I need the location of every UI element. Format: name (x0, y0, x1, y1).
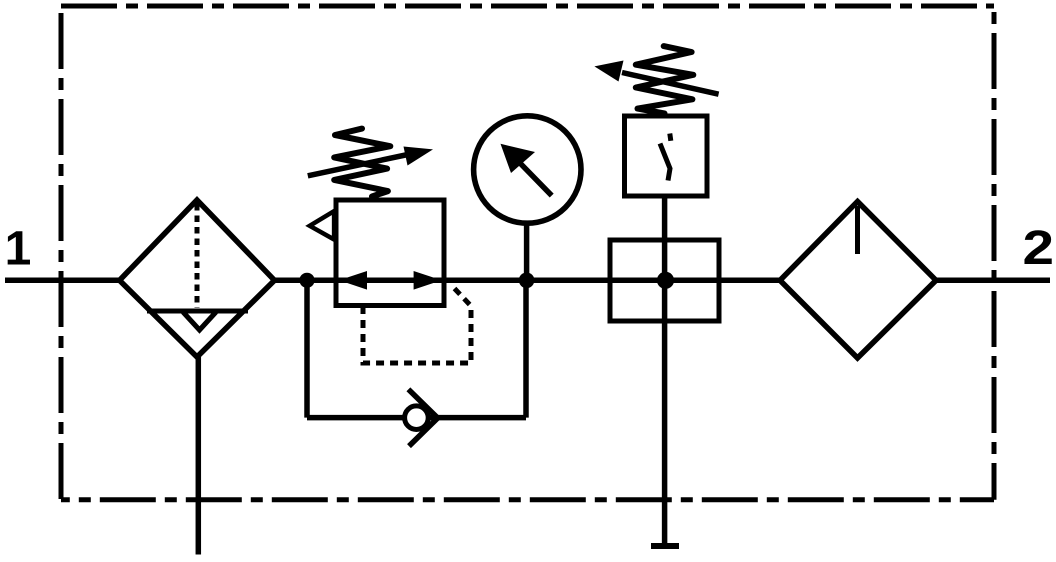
wire: bypass up leg to gauge node (523, 280, 529, 417)
regulator adjustment spring (334, 129, 390, 197)
valve exhaust end bar (651, 543, 679, 549)
pressure regulator body (336, 200, 444, 306)
wire: flow path through regulator (336, 278, 444, 284)
svg-text:1: 1 (5, 223, 32, 276)
on-off valve spring arrow (594, 61, 718, 95)
wire: bypass down leg from filter outlet node (304, 280, 310, 417)
enclosure border (dash-dot frame) (61, 6, 994, 500)
check valve (circle on seat) (405, 389, 438, 446)
on-off valve spring (636, 46, 694, 113)
regulator relief vent triangle (310, 211, 334, 239)
filter element dashed centre line (195, 204, 200, 308)
on-off valve lever mark (660, 134, 671, 181)
wire: bypass bottom line (307, 415, 526, 421)
wire: filter condensate drain line (196, 357, 202, 555)
filter separator V mark (183, 312, 216, 330)
wire: valve exhaust line down (662, 240, 668, 543)
filter separator chord line (147, 309, 248, 314)
wire: stem between valve head and valve body (662, 196, 668, 240)
node: junction dot at filter outlet (299, 273, 314, 288)
on-off valve pilot head (box with lever) (625, 116, 708, 196)
wire: inlet line from port 1 to filter (5, 278, 120, 284)
on-off valve body (610, 240, 719, 321)
pressure gauge (dial) (474, 116, 581, 223)
filter with water separator (diamond body) (120, 200, 275, 357)
lubricator (diamond body) (780, 202, 936, 359)
node: junction dot at gauge tap (519, 273, 535, 289)
wire: outlet line from lubricator to port 2 (935, 278, 1050, 284)
regulator adjustment arrow (308, 147, 433, 176)
node: junction dot inside valve body (657, 272, 674, 289)
lubricator drip line (855, 206, 860, 254)
regulator flow arrowhead left (339, 271, 367, 290)
regulator pilot dashed line (363, 289, 471, 364)
svg-text:2: 2 (1023, 221, 1055, 275)
wire: main line from filter to lubricator (274, 278, 781, 284)
wire: flow line through valve body (610, 278, 719, 284)
regulator flow arrowhead right (414, 271, 442, 290)
pressure gauge needle (501, 144, 552, 196)
wire: gauge stem (524, 224, 530, 280)
